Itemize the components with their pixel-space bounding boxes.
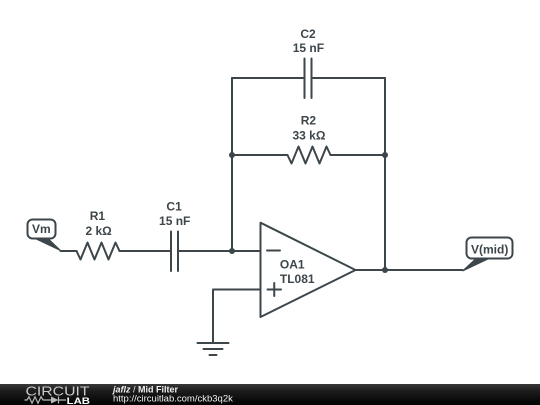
ground xyxy=(198,343,229,355)
resistor R2 xyxy=(288,147,331,164)
CircuitLab logo resistor-diode glyph xyxy=(25,397,67,404)
wire top C2 branch right xyxy=(312,77,386,79)
node A junction dot xyxy=(229,248,235,254)
capacitor C1 xyxy=(171,232,178,272)
junction dot output node xyxy=(382,267,388,273)
svg-text:15 nF: 15 nF xyxy=(293,41,324,55)
svg-text:V(mid): V(mid) xyxy=(471,243,508,257)
op-amp plus pin marker xyxy=(268,283,282,296)
wire op-amp output xyxy=(356,269,463,271)
wire right feedback vertical xyxy=(384,78,386,270)
wire R2 branch right xyxy=(331,154,386,156)
wire C1 to node A xyxy=(178,250,232,252)
wire R2 branch left xyxy=(232,154,288,156)
junction dot R2 left xyxy=(229,152,235,158)
op-amp minus pin marker xyxy=(267,250,280,252)
resistor R1 xyxy=(77,243,120,260)
wire plus input to ground xyxy=(213,290,261,344)
wire node A to op-amp minus input xyxy=(232,250,261,252)
svg-text:LAB: LAB xyxy=(67,396,90,405)
svg-text:R1: R1 xyxy=(90,209,106,223)
svg-text:R2: R2 xyxy=(301,114,317,128)
wire top C2 branch left xyxy=(232,77,305,79)
op-amp U1 triangle xyxy=(261,223,356,317)
svg-text:2 kΩ: 2 kΩ xyxy=(85,224,112,238)
wire input from Vm to R1 xyxy=(61,250,77,252)
wire R1 to C1 xyxy=(120,250,172,252)
wire left feedback vertical xyxy=(231,78,233,251)
node Vm flag xyxy=(28,220,61,251)
node V(mid) flag xyxy=(463,238,513,272)
junction dot R2 right xyxy=(382,152,388,158)
svg-text:C2: C2 xyxy=(300,27,316,41)
svg-text:C1: C1 xyxy=(166,200,182,214)
svg-text:http://circuitlab.com/ckb3q2k: http://circuitlab.com/ckb3q2k xyxy=(113,393,233,404)
svg-text:OA1: OA1 xyxy=(280,257,305,271)
svg-text:TL081: TL081 xyxy=(280,272,315,286)
svg-text:33 kΩ: 33 kΩ xyxy=(293,128,326,142)
svg-text:Vm: Vm xyxy=(32,222,51,236)
capacitor C2 xyxy=(305,59,312,99)
svg-text:15 nF: 15 nF xyxy=(159,214,190,228)
